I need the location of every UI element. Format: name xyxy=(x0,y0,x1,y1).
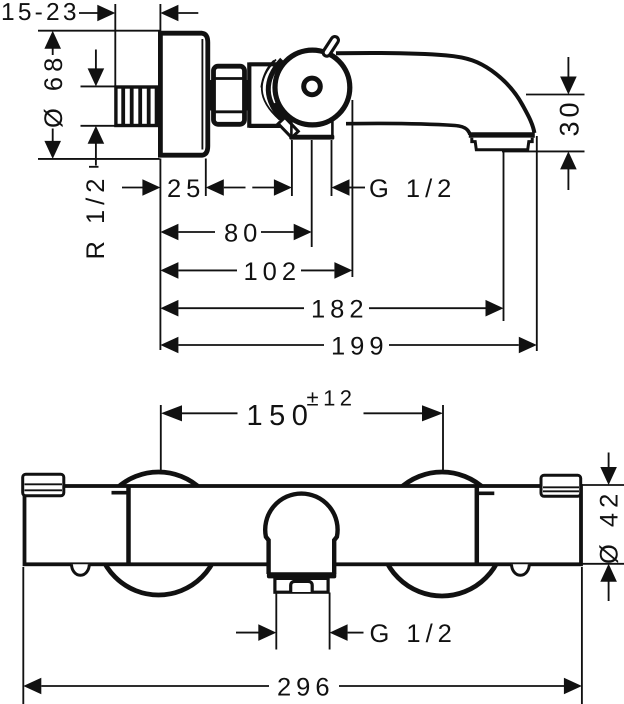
svg-text:182: 182 xyxy=(311,296,369,324)
svg-text:15-23: 15-23 xyxy=(1,0,80,26)
dimension 15-23 xyxy=(1,0,198,26)
left union nut face xyxy=(126,488,131,564)
svg-text:30: 30 xyxy=(555,98,585,136)
handle skirt crescent (thin arcs) xyxy=(262,60,280,120)
dimension G 1/2 (bottom outlet) xyxy=(236,620,457,648)
left wall tab xyxy=(23,474,64,496)
dimension G 1/2 (top, outlet) xyxy=(252,175,456,203)
svg-text:150: 150 xyxy=(247,400,315,432)
extension line: outlet right xyxy=(329,593,331,650)
handle lever tab xyxy=(327,40,335,52)
dimension 182 xyxy=(160,296,503,324)
spout bottom outline xyxy=(346,124,470,135)
threaded nipple R1/2 xyxy=(116,87,160,126)
wall escutcheon xyxy=(160,33,207,155)
tick under R 1/2 dimension xyxy=(89,166,99,168)
handle skirt lower wedge xyxy=(274,104,288,122)
extension line: spout outlet centre xyxy=(503,152,505,321)
extension line: thread tip xyxy=(114,4,116,86)
dimension 296 xyxy=(23,674,582,702)
svg-text:199: 199 xyxy=(331,333,389,361)
right wall rosette (circle) xyxy=(380,472,504,596)
svg-text:102: 102 xyxy=(244,258,302,286)
extension line: escutcheon right face below xyxy=(205,159,207,197)
extension line: wall face long (left datum) xyxy=(159,159,161,351)
valve body xyxy=(249,62,280,127)
extension line: wall face above escutcheon xyxy=(159,4,161,31)
dimension 25 xyxy=(122,175,246,203)
dimension diameter 68 xyxy=(40,31,68,159)
extension line: thread top (horizontal) xyxy=(81,85,116,87)
svg-text:296: 296 xyxy=(277,674,335,702)
handle hub (inner circle) xyxy=(304,78,321,95)
handle (outer circle) xyxy=(275,50,350,125)
extension line: outlet left xyxy=(275,593,277,650)
spout outlet lip xyxy=(469,132,535,138)
handle skirt (thick arc) xyxy=(268,60,284,122)
under-handle stub xyxy=(278,117,298,137)
right wall tab xyxy=(541,475,581,496)
right screw plug bump xyxy=(512,564,530,575)
svg-text:Ø 68: Ø 68 xyxy=(40,53,68,128)
extension line: handle outer edge xyxy=(351,100,353,277)
extension line: valve centerline below xyxy=(311,140,313,247)
svg-text:G 1/2: G 1/2 xyxy=(369,175,456,203)
dimension 30 xyxy=(555,57,585,190)
left screw plug bump xyxy=(72,564,90,575)
dimension diameter 42 xyxy=(582,453,624,602)
extension line: spout end top level (horizontal) xyxy=(526,94,585,96)
svg-text:G 1/2: G 1/2 xyxy=(370,620,457,648)
left union ledge xyxy=(112,491,130,495)
extension line: bar left end xyxy=(22,567,24,704)
central outlet dome xyxy=(265,494,337,574)
dimension 199 xyxy=(160,333,536,361)
svg-text:25: 25 xyxy=(167,175,205,203)
extension line: right union centre xyxy=(442,405,444,470)
svg-text:80: 80 xyxy=(224,220,262,248)
extension line: escutcheon bottom level (horizontal) xyxy=(38,158,160,160)
dimension 102 xyxy=(160,258,352,286)
outlet nipple G1/2 xyxy=(291,581,313,592)
svg-text:Ø 42: Ø 42 xyxy=(596,489,624,564)
right union ledge xyxy=(477,491,495,495)
dimension 80 xyxy=(160,220,311,248)
extension line: aerator bottom level (horizontal) xyxy=(502,150,585,152)
spout top outline xyxy=(336,53,534,133)
under-handle block sides xyxy=(291,120,332,135)
extension line: outlet right below valve xyxy=(331,140,333,196)
union nut xyxy=(212,66,247,124)
outlet dome base plate xyxy=(267,572,336,578)
outlet collar xyxy=(275,578,328,592)
extension line: spout tip xyxy=(536,136,538,351)
under-handle block base plate xyxy=(289,135,334,140)
extension line: thread bottom (horizontal) xyxy=(81,125,116,127)
valve bar body xyxy=(25,486,582,564)
right union nut face xyxy=(475,488,480,564)
extension line: left union centre xyxy=(160,405,162,471)
aerator cup xyxy=(472,138,532,150)
left wall rosette (circle) xyxy=(97,472,220,595)
dimension 150 +/-12 xyxy=(161,386,443,433)
svg-text:R 1/2: R 1/2 xyxy=(82,174,110,260)
dimension thread diameter (to R 1/2) xyxy=(88,50,105,166)
extension line: escutcheon top level (horizontal) xyxy=(38,30,160,32)
svg-text:±12: ±12 xyxy=(307,386,357,411)
extension line: outlet left below valve xyxy=(291,140,293,196)
extension line: bar right end xyxy=(581,567,583,704)
